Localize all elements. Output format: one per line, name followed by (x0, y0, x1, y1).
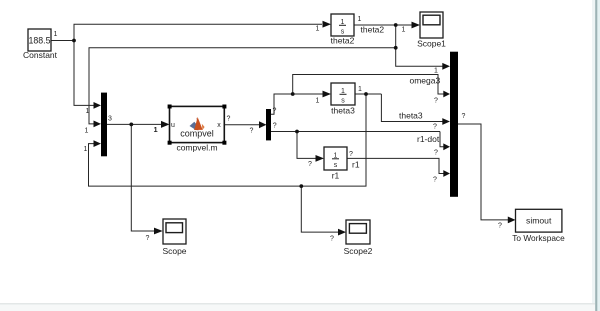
mux Mux2 (450, 52, 458, 197)
svg-text:x: x (217, 122, 221, 129)
wire theta2 down branch to Mux2 input1 (396, 25, 443, 66)
svg-text:1: 1 (316, 98, 320, 105)
junction Constant output (72, 39, 76, 43)
svg-text:1: 1 (85, 128, 89, 135)
matlab logo (190, 122, 197, 130)
demux Demux (266, 109, 271, 140)
selection handle bottom-right (222, 141, 226, 145)
wire r1-dot branch down to r1 input (297, 132, 316, 159)
block simout To Workspace (516, 209, 562, 232)
junction Mux1 output tap (129, 123, 133, 127)
wire Constant to theta2 (top run) (74, 24, 322, 40)
svg-text:theta2: theta2 (361, 25, 385, 35)
arrowhead into theta2 (323, 21, 332, 28)
svg-text:?: ? (462, 113, 466, 120)
wire compvel output to Demux (224, 124, 259, 126)
svg-text:u: u (171, 122, 175, 129)
block theta2 integrator (331, 14, 354, 36)
arrowhead into Scope (154, 228, 163, 235)
svg-text:1: 1 (154, 125, 158, 134)
wire Demux out2 r1-dot run (271, 131, 440, 133)
svg-text:simout: simout (526, 216, 552, 226)
svg-text:?: ? (433, 177, 437, 184)
svg-text:r1-dot: r1-dot (417, 134, 440, 144)
wire theta3 feedback to Mux1 input3 (89, 94, 367, 186)
arrowhead into compvel (161, 121, 170, 128)
arrowhead into Mux1 port1 (94, 102, 102, 109)
svg-text:?: ? (498, 223, 502, 230)
arrowhead into simout (508, 217, 516, 224)
svg-text:?: ? (146, 235, 150, 242)
svg-text:?: ? (250, 128, 254, 135)
selection handle top-right (222, 105, 226, 109)
wire Mux2 output to simout (458, 124, 508, 220)
arrowhead into Mux2 port2 (443, 91, 450, 98)
junction theta2 output (394, 23, 398, 27)
wire Demux out1 up to theta3 input (271, 94, 323, 114)
wire Constant branch down to Mux1 input1 (74, 41, 94, 106)
wire theta3 tap to Scope2 (301, 186, 338, 232)
svg-text:?: ? (434, 150, 438, 157)
arrowhead into Demux (259, 121, 267, 128)
svg-text:compvel: compvel (180, 128, 214, 138)
svg-text:s: s (341, 98, 345, 105)
wire theta2 feedback to Mux1 input2 (89, 48, 396, 124)
selection handle bottom-left (168, 141, 172, 145)
arrowhead into Mux1 port2 (94, 121, 102, 128)
svg-text:1: 1 (358, 16, 362, 23)
window bottom edge band (0, 303, 595, 305)
svg-text:?: ? (227, 116, 231, 123)
svg-text:?: ? (330, 236, 334, 243)
svg-text:s: s (334, 162, 338, 169)
wire tap to Scope (131, 124, 154, 231)
arrowhead into theta3 (323, 91, 332, 98)
junction omega3 tap (291, 92, 295, 96)
svg-text:?: ? (349, 151, 353, 158)
svg-text:1: 1 (84, 146, 88, 153)
wire Constant output (51, 40, 74, 42)
svg-text:r1: r1 (352, 160, 360, 170)
svg-text:?: ? (273, 108, 277, 115)
svg-text:theta2: theta2 (331, 36, 355, 46)
svg-text:1: 1 (358, 86, 362, 93)
svg-text:3: 3 (108, 116, 112, 123)
svg-text:1: 1 (54, 31, 58, 38)
wire theta3 output run (355, 93, 381, 95)
junction theta3 output (364, 92, 368, 96)
svg-text:1: 1 (316, 26, 320, 33)
junction theta2 feedback corner (394, 46, 398, 50)
svg-text:?: ? (308, 161, 312, 168)
block Scope2 (346, 220, 370, 244)
arrowhead into Mux2 port5 (443, 170, 450, 177)
mux Mux1 (101, 93, 107, 157)
arrowhead into Mux1 port3 (94, 140, 102, 147)
wire r1 output to Mux2 input5 (347, 158, 444, 173)
arrowhead into Mux2 port4 (443, 143, 450, 150)
wire r1-dot to Mux2 input4 (440, 132, 444, 147)
selection handle top-left (168, 105, 172, 109)
svg-text:s: s (341, 29, 345, 36)
arrowhead into Mux2 port3 (442, 118, 450, 125)
svg-text:theta3: theta3 (399, 111, 423, 121)
arrowhead into Scope2 (338, 229, 346, 236)
junction r1-dot tap (295, 130, 299, 134)
svg-text:Scope: Scope (162, 246, 186, 256)
svg-text:Constant: Constant (23, 50, 58, 60)
arrowhead into Mux2 port1 (442, 63, 450, 70)
junction theta3 Scope2 tap (299, 184, 303, 188)
svg-text:1: 1 (86, 108, 90, 115)
wire Mux1 output to compvel (107, 123, 162, 125)
arrowhead into Scope1 (412, 22, 421, 29)
block Scope1 (420, 12, 443, 38)
window right edge band (592, 0, 596, 311)
svg-text:1: 1 (402, 27, 406, 34)
block theta3 integrator (331, 83, 355, 105)
wire omega3 to Mux2 input2 (293, 75, 444, 95)
svg-text:1: 1 (434, 68, 438, 75)
block Constant (28, 29, 51, 51)
svg-text:compvel.m: compvel.m (176, 142, 217, 152)
svg-text:?: ? (433, 124, 437, 131)
svg-text:To Workspace: To Workspace (512, 233, 565, 243)
svg-text:188.5: 188.5 (28, 35, 50, 45)
svg-text:Scope1: Scope1 (417, 39, 446, 49)
block Scope (163, 219, 186, 244)
block compvel (selected) (168, 105, 227, 145)
svg-text:theta3: theta3 (331, 106, 355, 116)
arrowhead into r1 (316, 155, 325, 162)
svg-text:?: ? (434, 98, 438, 105)
wire theta3 to Mux2 input3 (381, 94, 442, 122)
block r1 integrator (324, 147, 347, 170)
svg-text:Scope2: Scope2 (344, 246, 373, 256)
svg-text:?: ? (273, 123, 277, 130)
svg-text:r1: r1 (332, 171, 340, 181)
wire theta2 output to Scope1 (354, 24, 412, 26)
svg-text:omega3: omega3 (410, 76, 441, 86)
